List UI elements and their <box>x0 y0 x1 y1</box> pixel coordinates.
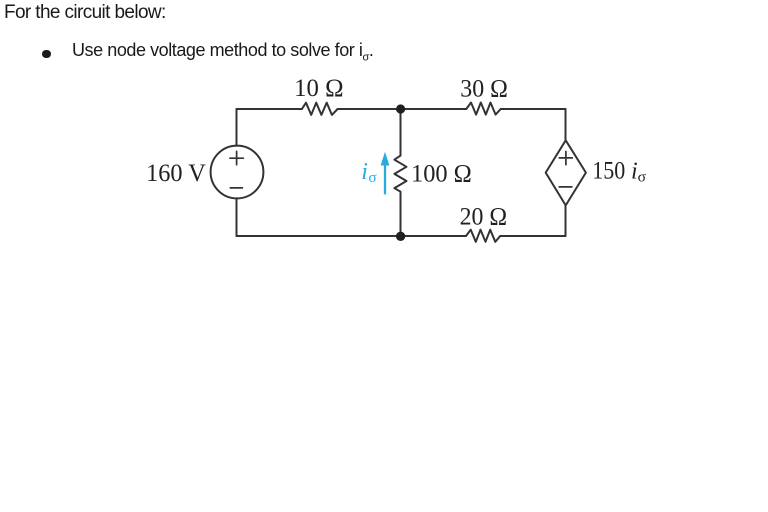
svg-text:150: 150 <box>592 155 625 184</box>
svg-text:σ: σ <box>368 170 376 186</box>
svg-text:100 Ω: 100 Ω <box>411 159 472 188</box>
svg-text:10 Ω: 10 Ω <box>294 73 343 102</box>
svg-text:i: i <box>361 159 368 185</box>
svg-text:160 V: 160 V <box>146 158 206 187</box>
svg-text:σ: σ <box>638 170 646 186</box>
svg-text:20 Ω: 20 Ω <box>460 201 508 230</box>
svg-text:i: i <box>631 158 638 184</box>
svg-text:30 Ω: 30 Ω <box>460 73 508 102</box>
